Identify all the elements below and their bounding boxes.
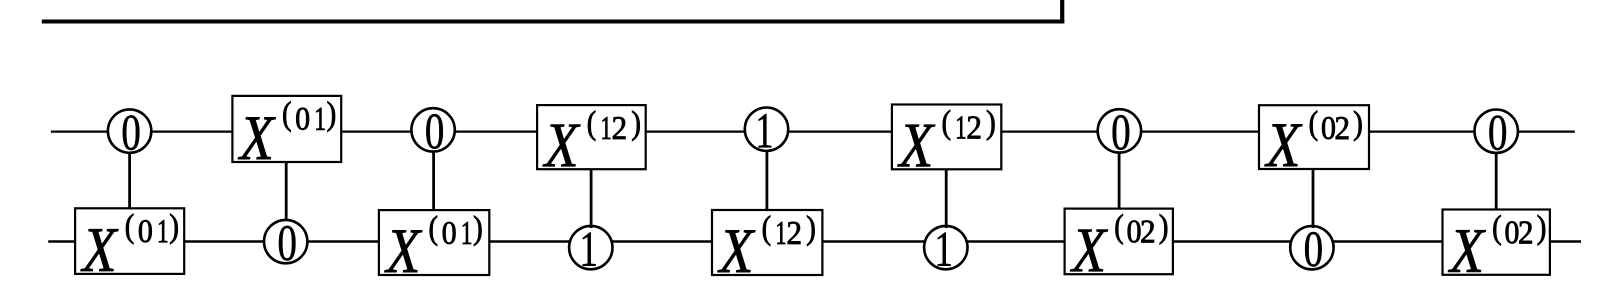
gate box B9: X^(02) [1443,210,1550,275]
control circle C6: value 1 [924,226,967,269]
control circle C4: value 1 [569,226,612,269]
frame right edge (cropped fbox) [1060,0,1064,24]
wire vertical connector col5 [766,129,769,211]
frame bottom edge (cropped fbox) [42,20,1065,24]
gate box B3: X^(01) [379,210,489,275]
control circle C7: value 0 [1098,109,1141,152]
wire qutrit line 1 (top) [51,131,1575,133]
wire vertical connector col4 [590,168,593,247]
gate box B1: X^(01) [75,208,184,274]
wire connector stub col8 [1312,225,1315,229]
wire vertical connector col3 [432,130,435,211]
gate box B5: X^(12) [712,210,822,275]
wire connector stub col4 [590,224,593,228]
wire vertical connector col6 [945,168,948,247]
control circle C2: value 0 [264,220,307,263]
wire vertical connector col8 [1312,168,1315,248]
wire connector stub col6 [945,224,948,228]
control circle C3: value 0 [411,108,454,151]
gate box B4: X^(12) [537,105,646,169]
control circle C8: value 0 [1290,226,1333,269]
wire vertical connector col9 [1495,131,1498,210]
wire vertical connector col2 [285,161,288,242]
wire qutrit line 2 (bottom) [48,240,1581,243]
control circle C1: value 0 [108,109,151,152]
gate box B8: X^(02) [1259,105,1369,169]
gate box B6: X^(12) [892,105,1001,170]
wire vertical connector col1 [128,131,131,209]
wire vertical connector col7 [1118,131,1121,210]
gate box B7: X^(02) [1065,209,1173,275]
control circle C5: value 1 [745,108,788,151]
control circle C9: value 0 [1475,110,1518,153]
gate box B2: X^(01) [232,96,341,162]
